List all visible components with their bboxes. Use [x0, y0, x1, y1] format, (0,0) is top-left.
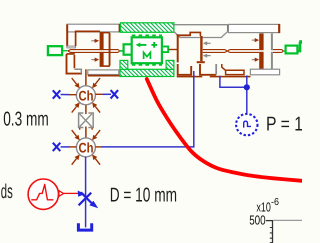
motor M1 body: [132, 37, 162, 63]
chamber C2 arrows: [72, 130, 100, 165]
signal arrowhead: [78, 191, 85, 197]
chamber C2: [76, 138, 95, 157]
jack J1 flow arrow bottom: [91, 58, 99, 62]
jack J2 bottom lines: [177, 76, 251, 78]
svg-text:0.3 mm: 0.3 mm: [3, 108, 49, 130]
hydraulic line drop B: [220, 76, 247, 88]
port connector green left: [48, 46, 68, 55]
mass port square left: [119, 50, 124, 52]
motor M1 arrow: [136, 43, 147, 48]
svg-text:x10: x10: [256, 199, 270, 214]
damper contact dashes top: [132, 34, 162, 36]
chamber C1 left line: [61, 94, 70, 96]
motor M1 plus sign: [151, 42, 157, 48]
svg-text:ds: ds: [1, 181, 13, 203]
plot curve: [147, 79, 302, 181]
svg-text:-6: -6: [271, 197, 279, 208]
jack J2 flow arrow top: [252, 38, 259, 42]
jack J1 top bar: [67, 24, 121, 32]
plugged port X3: [53, 143, 61, 151]
jack J1 rod: [68, 50, 120, 53]
variable orifice O2: [79, 192, 99, 208]
chamber C1 pipe: [85, 105, 87, 113]
motor M1 port right: [162, 47, 168, 53]
motor M1 label M: [144, 52, 151, 59]
jack J2 top bar: [228, 24, 280, 33]
svg-text:Ch: Ch: [79, 140, 94, 156]
jack J2 rod: [203, 50, 283, 53]
signal wire: [64, 192, 78, 194]
jack J2 gray arrow bottom: [203, 54, 211, 58]
damper contact dashes bottom: [132, 64, 162, 66]
jack J2 cup port left: [178, 64, 192, 75]
jack J2 left body: [177, 32, 205, 63]
hydraulic line C2 down: [85, 157, 87, 228]
chamber C1 left stub: [69, 94, 76, 96]
chamber C1 right stub: [95, 93, 102, 95]
plugged port X1: [53, 90, 61, 98]
chamber C1: [76, 86, 95, 105]
jack J2 cup port right: [200, 64, 216, 75]
chamber C1 right line: [103, 93, 111, 95]
jack J2 tick: [227, 25, 229, 31]
signal arrow tail: [59, 191, 64, 197]
chamber C2 right stub: [95, 146, 101, 148]
jack J2 flow arrow bottom: [252, 58, 259, 62]
jack J1 flow arrow top: [91, 39, 99, 43]
hydraulic line drop C: [246, 75, 248, 113]
jack J2 gray arrow top: [203, 41, 211, 45]
jack J2 piston: [259, 33, 273, 69]
svg-text:500: 500: [249, 213, 266, 228]
pipe jack J1 to chamber: [85, 69, 87, 86]
signal source S1: [28, 179, 58, 209]
jack J2 step port: [222, 64, 244, 75]
svg-text:P = 1: P = 1: [266, 113, 302, 135]
jack J1 piston: [100, 32, 111, 67]
jack J2 top line: [174, 24, 228, 26]
jack J2 bottom bar: [250, 69, 279, 75]
damper mass hatch bottom: [120, 60, 174, 76]
chamber C1 arrows: [72, 78, 100, 113]
junction node: [244, 84, 250, 90]
plugged port X2: [111, 90, 119, 98]
port connector green right: [283, 40, 302, 53]
pressure source P1: [236, 114, 257, 135]
jack J2 shelf: [174, 31, 228, 37]
chamber C2 left stub: [69, 146, 76, 148]
hydraulic line drop A: [101, 71, 194, 147]
svg-text:Ch: Ch: [79, 88, 94, 104]
jack J1 bottom bar: [88, 70, 120, 77]
orifice O1 leakage: [79, 112, 94, 138]
chamber C2 left line: [61, 146, 70, 148]
damper mass hatch top: [121, 23, 174, 33]
svg-text:D = 10 mm: D = 10 mm: [110, 184, 177, 206]
plot axis: [249, 197, 302, 243]
link motor to jack J2: [169, 49, 177, 51]
tank T1: [78, 223, 91, 230]
jack J1 body left walls: [67, 25, 101, 74]
